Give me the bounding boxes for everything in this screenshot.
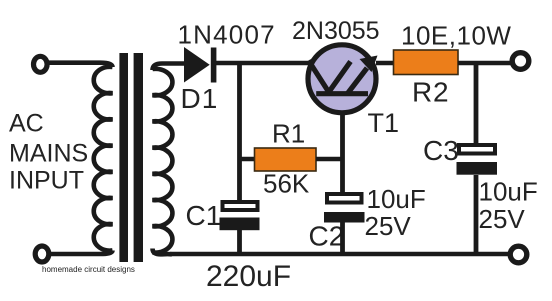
svg-text:MAINS: MAINS: [9, 140, 88, 168]
svg-text:1N4007: 1N4007: [178, 20, 276, 50]
svg-text:10E,10W: 10E,10W: [401, 21, 511, 51]
svg-text:25V: 25V: [479, 204, 526, 234]
svg-text:56K: 56K: [263, 169, 310, 199]
svg-text:C1: C1: [186, 200, 222, 231]
wire: transistor emitter to R2: [376, 61, 394, 66]
svg-text:R2: R2: [412, 77, 449, 108]
svg-text:220uF: 220uF: [206, 260, 291, 293]
wire: node to R1 left lead: [240, 157, 257, 161]
svg-text:T1: T1: [368, 108, 400, 138]
svg-text:2N3055: 2N3055: [292, 17, 380, 45]
wire: bottom-left terminal to primary winding: [50, 251, 113, 255]
wire: R2 to output terminal: [458, 61, 511, 66]
wire: R1 right lead to base line: [316, 157, 344, 161]
wire: transistor base lead down to C2: [340, 113, 345, 195]
transformer core: [119, 53, 143, 262]
wire: C3 to ground rail: [474, 175, 479, 254]
capacitor C2: [324, 194, 365, 223]
svg-text:10uF: 10uF: [367, 184, 426, 214]
wire: top-left terminal to primary winding: [48, 63, 113, 67]
capacitor C1: [220, 202, 260, 230]
label AC MAINS INPUT: [9, 110, 88, 195]
svg-text:homemade circuit designs: homemade circuit designs: [42, 265, 135, 274]
svg-text:D1: D1: [181, 83, 219, 114]
terminal: output top-right: [512, 53, 529, 70]
resistor R1: [255, 148, 317, 171]
resistor R2: [394, 50, 459, 75]
svg-text:25V: 25V: [365, 211, 412, 241]
terminal: AC input bottom-left: [35, 246, 49, 262]
wire: secondary bottom to ground rail: [153, 249, 173, 255]
svg-text:10uF: 10uF: [479, 177, 538, 207]
terminal: output bottom-right: [510, 246, 527, 263]
svg-text:INPUT: INPUT: [9, 167, 84, 195]
svg-text:C3: C3: [423, 135, 459, 166]
svg-text:AC: AC: [9, 110, 44, 138]
wire: output node down to C3: [474, 63, 479, 144]
wire: secondary top to diode anode: [153, 64, 185, 71]
capacitor C3: [457, 145, 498, 175]
svg-text:C2: C2: [309, 221, 345, 252]
terminal: AC input top-left: [34, 56, 48, 72]
transformer primary winding: [94, 67, 113, 251]
svg-text:R1: R1: [272, 119, 305, 149]
wire: top rail from diode to transistor: [214, 61, 310, 66]
wire: C1 to ground rail: [237, 229, 242, 254]
ground rail (bottom): [170, 252, 510, 257]
wire: C2 to ground rail: [340, 222, 345, 254]
transformer secondary winding: [153, 69, 173, 253]
diode D1: [184, 47, 216, 83]
transistor T1: [308, 45, 378, 113]
wire: rectifier node down to C1: [237, 63, 242, 203]
